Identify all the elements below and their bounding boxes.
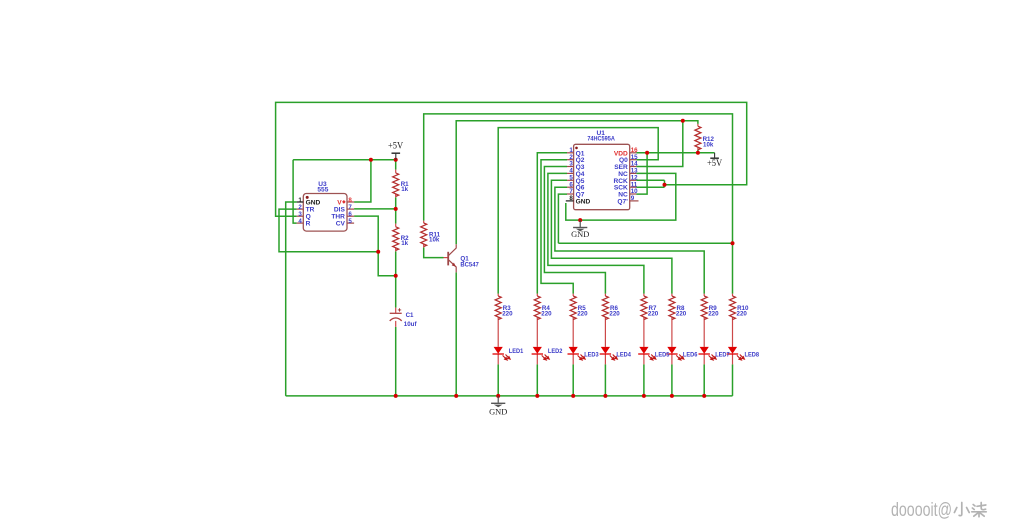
svg-text:10uf: 10uf (404, 321, 418, 328)
svg-text:+5V: +5V (707, 159, 722, 169)
svg-text:1k: 1k (401, 186, 408, 193)
svg-text:GND: GND (489, 408, 507, 417)
svg-text:LED6: LED6 (683, 351, 698, 358)
svg-text:7: 7 (348, 204, 352, 211)
svg-text:220: 220 (577, 311, 588, 318)
svg-text:LED5: LED5 (655, 351, 670, 358)
svg-text:LED3: LED3 (584, 351, 599, 358)
svg-text:2: 2 (298, 204, 302, 211)
svg-text:9: 9 (631, 195, 635, 202)
svg-text:220: 220 (648, 311, 659, 318)
svg-text:4: 4 (298, 218, 302, 225)
svg-text:LED1: LED1 (509, 348, 524, 355)
svg-text:BC547: BC547 (460, 262, 479, 269)
svg-text:220: 220 (609, 311, 620, 318)
svg-text:R: R (306, 221, 311, 228)
svg-text:1k: 1k (401, 240, 408, 247)
svg-text:220: 220 (676, 311, 687, 318)
svg-text:dooooit@: dooooit@ (891, 500, 952, 521)
svg-text:1: 1 (298, 197, 302, 204)
svg-text:220: 220 (737, 311, 748, 318)
svg-text:Q7': Q7' (617, 198, 628, 205)
svg-text:LED7: LED7 (715, 351, 730, 358)
svg-text:8: 8 (569, 195, 573, 202)
svg-text:220: 220 (708, 311, 719, 318)
svg-text:8: 8 (348, 197, 352, 204)
svg-text:CV: CV (336, 221, 346, 228)
svg-text:C1: C1 (406, 312, 414, 319)
svg-text:LED8: LED8 (745, 351, 760, 358)
svg-text:V: V (337, 200, 342, 207)
svg-text:220: 220 (502, 311, 513, 318)
svg-text:LED2: LED2 (548, 348, 563, 355)
svg-text:TR: TR (306, 207, 315, 214)
svg-text:5: 5 (348, 218, 352, 225)
svg-text:10k: 10k (703, 141, 714, 148)
svg-text:LED4: LED4 (616, 351, 631, 358)
svg-text:GND: GND (306, 200, 321, 207)
svg-text:DIS: DIS (334, 207, 346, 214)
svg-text:GND: GND (571, 230, 589, 239)
svg-text:GND: GND (576, 198, 591, 205)
svg-text:74HC595A: 74HC595A (587, 135, 615, 142)
svg-text:555: 555 (317, 186, 328, 193)
svg-text:+5V: +5V (388, 142, 403, 152)
svg-text:220: 220 (541, 311, 552, 318)
svg-text:10k: 10k (429, 237, 440, 244)
